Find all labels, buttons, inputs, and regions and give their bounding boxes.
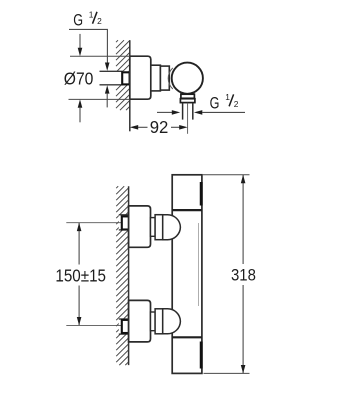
dimension 92 (wall to outlet axis) [130,125,138,130]
wall socket fitting (top view) [122,72,129,84]
svg-text:318: 318 [231,265,256,284]
svg-text:2: 2 [97,16,102,26]
lower wall socket [122,320,130,333]
knob rear flange arc (top view) [168,68,173,89]
svg-text:2: 2 [234,99,239,109]
lower S-union dome [163,309,181,334]
svg-text:1: 1 [225,92,230,102]
outlet pipe walls [183,103,193,120]
arrow to inlet pipe bottom edge [105,85,110,93]
lower S-union ring [151,312,156,331]
outlet neck below knob [181,92,193,94]
outlet ring 2 [180,99,195,103]
diameter 70 upper arrow [79,34,81,49]
dimension 318 (body length) [203,174,250,176]
svg-text:G: G [73,11,83,29]
label G 1/2 (outlet thread) [210,92,239,112]
wall face line (front view) [128,186,130,365]
bottom cap separation line [172,336,202,338]
label G 1/2 (top, inlet thread) [73,10,102,30]
wall hatching (front view) [116,186,128,365]
lower wall hole [119,319,130,334]
outlet thread dimension right arrow / leader [194,110,202,115]
control knob circle (top view) [172,63,203,94]
upper wall socket [122,216,130,229]
thermostat body bar [172,175,202,374]
top cap shading band [200,182,203,206]
upper S-union ring [151,218,156,237]
escutcheon flange, side view (top view) [130,56,151,99]
svg-text:1: 1 [89,10,94,20]
svg-text:92: 92 [150,117,169,137]
upper supply centre line [66,222,122,224]
lower supply centre line [66,324,122,326]
dimension 150 plus/minus 15 [78,223,80,265]
body highlight line [198,223,200,306]
bottom cap shading band [200,342,203,369]
leader line for top G 1/2 [69,29,107,63]
diameter 70 extension line top [70,55,130,57]
upper escutcheon (front view) [129,206,151,247]
diameter 70 lower arrow [78,99,83,107]
wall hatching (top view) [116,40,130,110]
top cap separation line [172,209,202,211]
arrow to inlet pipe top edge [105,63,110,71]
outlet thread dimension left arrow [157,111,172,113]
upper S-union nut [155,215,163,240]
svg-text:Ø70: Ø70 [64,69,94,89]
outlet pipe centre line [187,103,189,134]
outlet ring 1 [181,94,195,98]
wall face line (top view) [129,40,131,131]
thermostat body cylinder section 2 (top view) [160,66,169,90]
upper S-union dome [163,215,181,240]
upper wall hole [119,215,130,230]
svg-text:G: G [210,95,220,113]
supply pipe stub through wall (top view) [100,71,130,85]
thermostat body cylinder section 1 (top view) [151,65,161,91]
lower S-union nut [155,309,163,334]
svg-text:150±15: 150±15 [55,265,106,285]
lower escutcheon (front view) [129,300,151,342]
diameter 70 extension line bottom [69,98,130,100]
